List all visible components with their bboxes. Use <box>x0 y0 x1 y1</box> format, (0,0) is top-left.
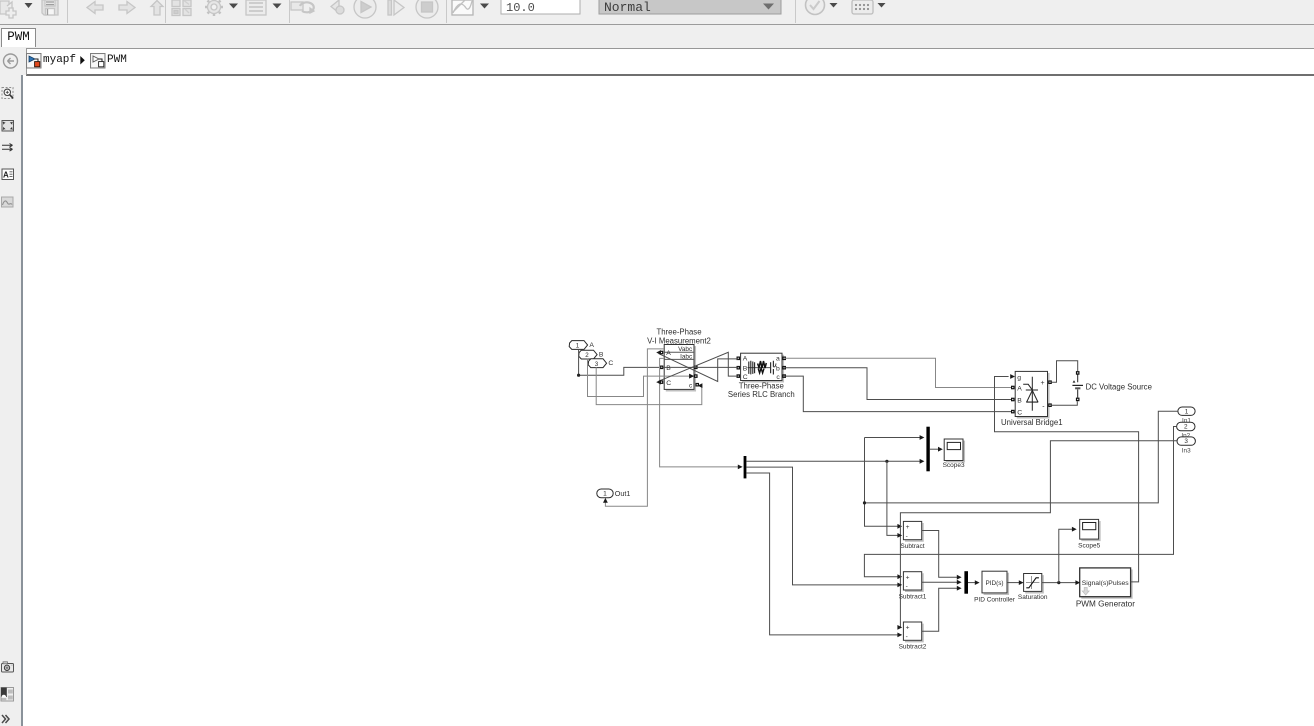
svg-text:Three-Phase: Three-Phase <box>656 328 701 337</box>
inport oval In2 <box>1177 422 1195 430</box>
block Scope3 <box>944 439 964 462</box>
inport 3 (C) <box>588 359 613 368</box>
svg-text:PWM Generator: PWM Generator <box>1076 599 1135 608</box>
svg-text:3: 3 <box>595 361 599 368</box>
svg-text:A: A <box>3 171 9 180</box>
svg-text:1: 1 <box>576 343 580 350</box>
svg-text:B: B <box>599 351 604 358</box>
wire branch to Subtract minus input <box>887 461 902 538</box>
svg-text:b: b <box>776 365 780 372</box>
wire diagonal RLC A to V-I port A <box>656 350 738 381</box>
svg-text:Scope3: Scope3 <box>943 462 965 469</box>
svg-text:Signal(s): Signal(s) <box>1082 580 1109 587</box>
inport 2 (B) <box>579 350 604 359</box>
wire Demux out2 to Subtract1 minus input <box>746 467 902 587</box>
label PID Controller <box>974 597 1016 604</box>
wire RLC c to Bridge C <box>784 376 1011 412</box>
block PID Controller <box>982 571 1008 594</box>
model icon myapf <box>27 54 42 69</box>
wire PWM Generator output to Bridge gate g <box>995 374 1139 582</box>
forward arrow <box>119 2 135 14</box>
wire In3 to Subtract2 <box>897 441 1177 630</box>
label Three-Phase V-I Measurement2 <box>647 328 711 346</box>
wire Demux out1 to Scope3 mux <box>746 459 924 464</box>
wire V-I Vabc output to Out1 <box>603 349 664 506</box>
inport oval In1 <box>1178 407 1195 415</box>
label Universal Bridge1 <box>1001 418 1063 427</box>
wire Demux out3 to Subtract2 minus input <box>746 473 902 637</box>
svg-text:Three-Phase: Three-Phase <box>739 382 784 391</box>
svg-text:+: + <box>906 625 910 632</box>
svg-text:A: A <box>743 356 748 363</box>
wire PID Controller to Saturation <box>1007 580 1024 585</box>
label In2 <box>1181 432 1190 439</box>
wire branch to Scope5 <box>1059 527 1077 583</box>
svg-text:Iabc: Iabc <box>680 354 693 361</box>
breadcrumb separator arrow <box>80 56 85 65</box>
label In1 <box>1182 417 1191 424</box>
svg-text:PID Controller: PID Controller <box>974 597 1016 604</box>
build icon <box>852 0 873 14</box>
block Scope5 <box>1080 519 1100 540</box>
subsystem icon PWM <box>91 54 106 69</box>
svg-text:A: A <box>589 342 594 349</box>
screenshot camera tool <box>2 662 14 672</box>
label In3 <box>1182 448 1191 455</box>
wire In2 to Subtract1 <box>864 427 1176 580</box>
block Subtract <box>903 521 923 541</box>
dark dropdown arrows <box>25 3 886 9</box>
svg-text:Out1: Out1 <box>615 489 631 498</box>
gear <box>208 1 221 14</box>
wire Scope3 mux to Scope3 <box>930 447 943 452</box>
svg-text:B: B <box>1017 397 1022 404</box>
svg-text:c: c <box>776 374 780 381</box>
label DC Voltage Source <box>1086 382 1152 391</box>
block Three-Phase Series RLC Branch <box>737 353 787 382</box>
wire diagonal RLC C to V-I port C <box>656 352 738 384</box>
label Scope5 <box>1078 543 1100 550</box>
back nav circled button <box>4 54 18 68</box>
svg-text:Saturation: Saturation <box>1018 594 1048 601</box>
svg-text:Series RLC Branch: Series RLC Branch <box>728 390 795 399</box>
route arrows tool <box>2 144 13 152</box>
svg-text:Universal Bridge1: Universal Bridge1 <box>1001 418 1063 427</box>
annotation tool A= <box>2 169 14 180</box>
wire V-I Iabc output to Demux <box>660 358 743 469</box>
wire Subtract1 to PID mux <box>922 580 962 585</box>
svg-text:In3: In3 <box>1182 448 1191 455</box>
wire In1 to Subtract and Scope3 mux <box>863 411 1178 529</box>
Normal combo <box>599 0 781 15</box>
expand chevrons <box>2 715 9 723</box>
up arrow <box>151 1 163 16</box>
wire Bridge plus to DC source top <box>1052 361 1078 382</box>
svg-text:2: 2 <box>585 352 589 359</box>
update diagram icon <box>291 2 303 10</box>
label Three-Phase Series RLC Branch <box>728 382 795 400</box>
wire Inport2 to V-I right input <box>588 358 695 396</box>
model explorer list icon <box>246 0 266 15</box>
label Saturation <box>1018 594 1048 601</box>
svg-text:Scope5: Scope5 <box>1078 543 1100 550</box>
svg-text:DC Voltage Source: DC Voltage Source <box>1086 382 1152 391</box>
svg-text:Normal: Normal <box>604 0 651 15</box>
fit to view tool <box>2 121 14 132</box>
svg-text:-: - <box>906 583 908 590</box>
wire Bridge minus to DC source bottom <box>1052 401 1077 405</box>
check circle <box>806 0 825 15</box>
svg-text:A: A <box>666 350 671 357</box>
block PWM Generator <box>1080 568 1132 598</box>
10.0 field <box>501 0 580 15</box>
label PWM Generator <box>1076 599 1135 608</box>
svg-text:C: C <box>666 380 671 387</box>
svg-text:Pulses: Pulses <box>1108 580 1129 587</box>
save (floppy) <box>42 0 58 15</box>
svg-text:Subtract2: Subtract2 <box>899 644 927 651</box>
stop <box>416 0 438 18</box>
library browser grid icon <box>172 0 180 7</box>
block Universal Bridge1 <box>1011 371 1052 417</box>
svg-text:2: 2 <box>1184 424 1188 431</box>
svg-text:+: + <box>1041 380 1045 387</box>
svg-text:Subtract: Subtract <box>900 543 924 550</box>
svg-text:10.0: 10.0 <box>506 1 535 15</box>
svg-text:-: - <box>906 633 908 640</box>
mux for Scope3 <box>926 427 929 472</box>
wire RLC a to Bridge A <box>784 358 1011 387</box>
label Subtract <box>900 543 924 550</box>
svg-text:C: C <box>1017 409 1022 416</box>
back arrow <box>87 2 103 14</box>
svg-text:+: + <box>906 574 910 581</box>
outport Out1 <box>597 489 631 498</box>
svg-text:Subtract1: Subtract1 <box>899 593 927 600</box>
viewmarks tool <box>1 688 14 702</box>
image annotation tool <box>2 197 14 207</box>
wire Subtract2 to PID mux <box>922 586 962 631</box>
block Three-Phase V-I Measurement2 <box>660 345 699 391</box>
wire Inport1 to V-I port B <box>577 349 659 377</box>
svg-text:1: 1 <box>603 491 607 498</box>
svg-text:1: 1 <box>1185 408 1189 415</box>
svg-text:3: 3 <box>1184 438 1188 445</box>
wire Subtract to PID mux <box>922 531 962 580</box>
wire Saturation to PWM Generator with branch <box>1042 580 1080 585</box>
step forward <box>388 0 392 15</box>
inport oval In3 <box>1177 437 1195 445</box>
block Saturation <box>1024 574 1044 593</box>
svg-text:+: + <box>906 524 910 531</box>
svg-text:B: B <box>666 365 671 372</box>
label Subtract1 <box>899 593 927 600</box>
mux for PID Controller <box>964 571 968 594</box>
label Scope3 <box>943 462 965 469</box>
chart icon <box>452 0 473 15</box>
debug icon <box>331 0 339 13</box>
DC Voltage Source <box>1072 371 1083 401</box>
block Subtract2 <box>903 622 923 642</box>
wire through V-I block to RLC port B <box>662 366 739 368</box>
label Subtract2 <box>899 644 927 651</box>
block Subtract1 <box>903 572 923 592</box>
svg-text:A: A <box>1017 385 1022 392</box>
svg-text:C: C <box>608 360 613 367</box>
svg-text:C: C <box>743 374 748 381</box>
svg-text:a: a <box>776 356 780 363</box>
wire PID mux to PID Controller <box>968 580 980 585</box>
svg-text:-: - <box>906 533 908 540</box>
demux after Iabc <box>744 456 747 478</box>
wire Inport3 to V-I port c hook <box>596 367 702 404</box>
svg-text:V-I Measurement2: V-I Measurement2 <box>647 336 711 345</box>
svg-text:B: B <box>743 365 748 372</box>
svg-text:g: g <box>1017 374 1021 381</box>
svg-text:Vabc: Vabc <box>678 346 693 353</box>
svg-text:PID(s): PID(s) <box>985 580 1003 587</box>
play <box>354 0 376 18</box>
zoom tool (selected, dashed marquee) <box>2 88 13 99</box>
wire RLC b to Bridge B <box>784 368 1011 400</box>
new model icon (cropped) <box>0 1 13 14</box>
inport 1 (A) <box>569 341 594 350</box>
